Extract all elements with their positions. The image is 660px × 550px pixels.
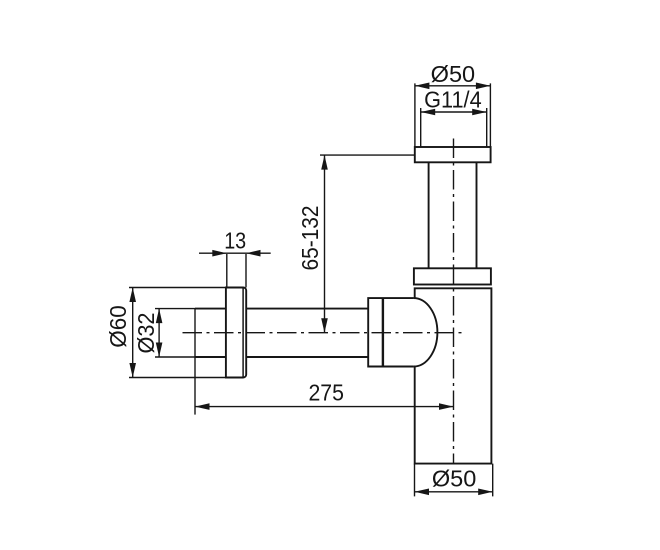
dim G11/4 line — [421, 111, 487, 113]
dim Ø50 top line — [415, 85, 491, 87]
svg-text:G11/4: G11/4 — [424, 86, 482, 112]
dim Ø50 bottom extension lines — [415, 464, 493, 497]
vertical tail pipe — [429, 162, 477, 268]
arrowhead &#216;60 bottom — [129, 363, 136, 378]
horizontal centerline — [183, 332, 463, 334]
top flange nut — [415, 147, 491, 162]
arrowhead &#216;50 bottom left — [415, 489, 430, 496]
svg-text:275: 275 — [308, 380, 344, 406]
dim Ø32 line — [158, 309, 160, 357]
arrowhead 13 right (points left) — [246, 250, 261, 257]
dim 65-132 line — [324, 155, 326, 333]
nut divider line — [382, 298, 384, 366]
svg-text:Ø50: Ø50 — [431, 61, 476, 87]
dim Ø60 line — [132, 288, 134, 378]
svg-text:65-132: 65-132 — [297, 206, 323, 271]
horizontal pipe walls — [195, 309, 368, 357]
arrowhead G11/4 left — [421, 109, 436, 116]
arrowhead 65-132 top — [321, 155, 328, 170]
dim 13 line with tails — [199, 252, 271, 254]
svg-text:13: 13 — [224, 228, 246, 254]
dim 275 line — [195, 406, 454, 408]
trap body top rim flange — [414, 268, 491, 284]
arrowhead &#216;50 bottom right — [478, 489, 493, 496]
arrowhead &#216;50 top right — [476, 83, 491, 90]
union nut on horizontal pipe — [368, 298, 413, 366]
arrowhead &#216;32 top — [156, 309, 163, 324]
dim G11/4 extension lines — [421, 108, 487, 148]
arrowhead &#216;32 bottom — [156, 343, 163, 358]
svg-text:Ø60: Ø60 — [105, 305, 131, 348]
dim 275 extension line / pipe end — [194, 309, 196, 415]
dim 65-132 extension line — [320, 154, 415, 156]
arrowhead 275 right — [439, 403, 454, 410]
dim Ø50 top extension lines — [415, 83, 491, 147]
arrowhead G11/4 right — [472, 109, 487, 116]
dim Ø50 bottom line — [415, 491, 493, 493]
vertical centerline — [453, 139, 455, 464]
arrowhead 65-132 bottom — [321, 318, 328, 333]
trap body cup — [415, 288, 492, 463]
wall flange inner edge — [242, 288, 244, 377]
wall flange rosette — [226, 288, 246, 378]
dim Ø60 extension lines — [129, 288, 226, 378]
svg-text:Ø32: Ø32 — [133, 313, 159, 354]
arrowhead &#216;60 top — [129, 288, 136, 303]
dim Ø32 extension lines — [155, 309, 195, 357]
svg-text:Ø50: Ø50 — [432, 465, 477, 491]
arrowhead &#216;50 top left — [415, 83, 430, 90]
arrowhead 275 left — [195, 403, 210, 410]
inlet bulge arc — [414, 298, 438, 366]
arrowhead 13 left (points right) — [212, 250, 227, 257]
dim 13 extension lines — [227, 254, 246, 288]
